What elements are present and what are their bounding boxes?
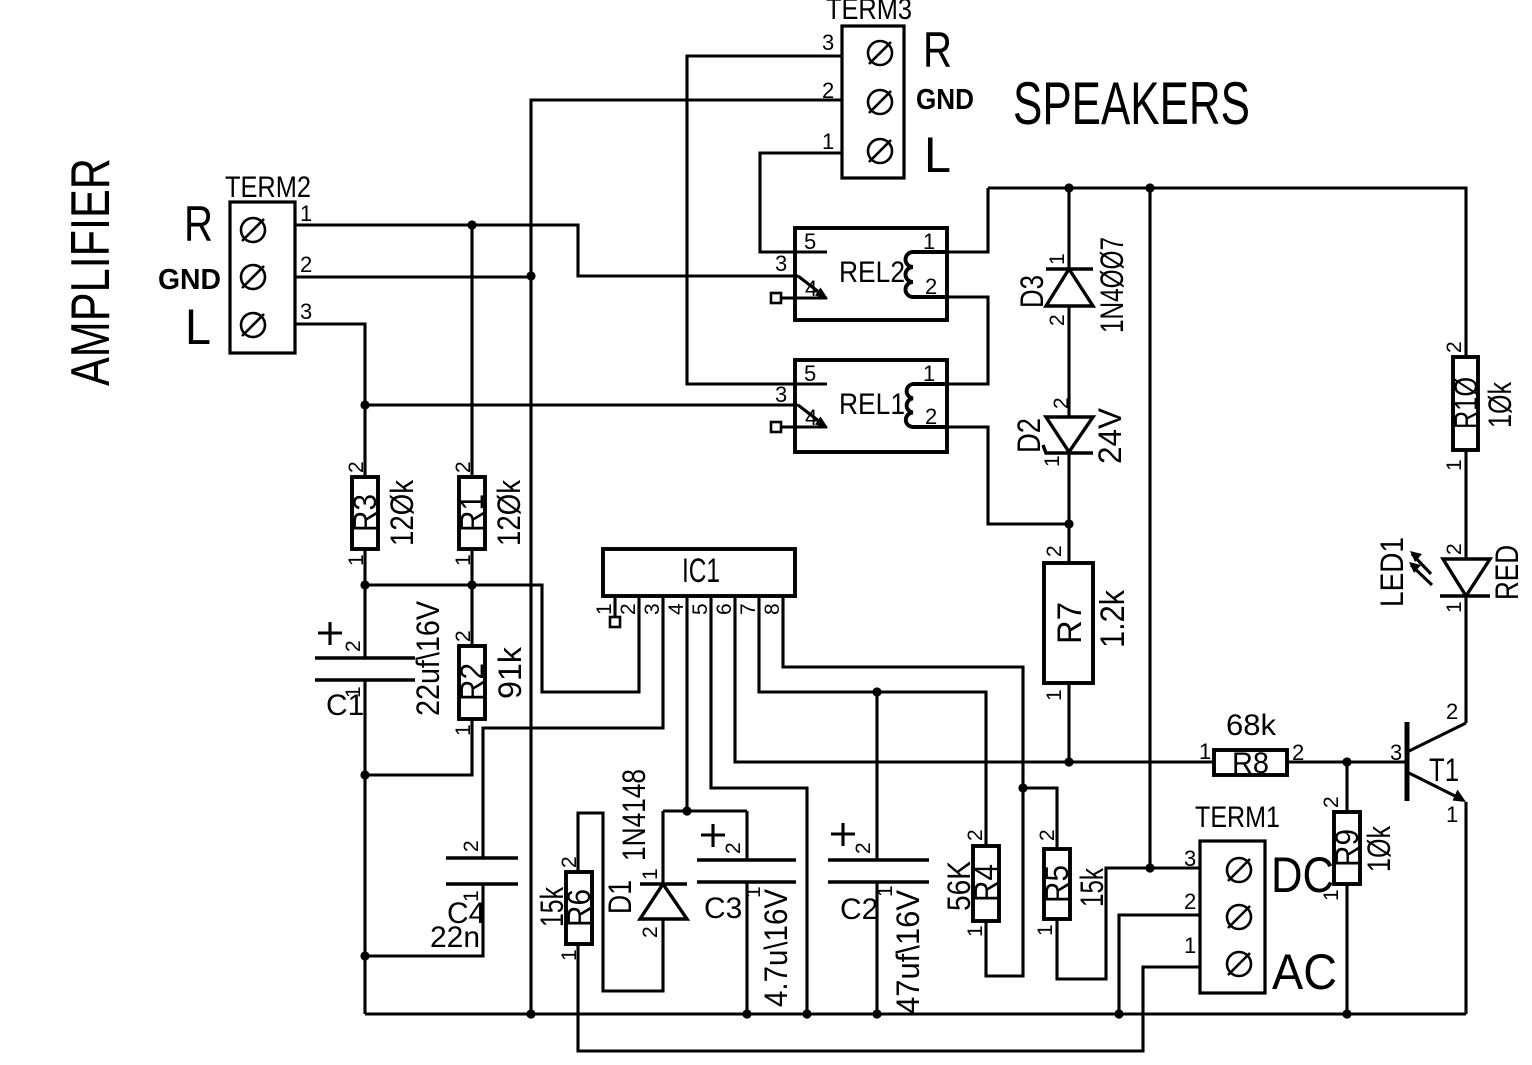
- svg-text:4: 4: [805, 405, 817, 430]
- terminal TERM1: [1195, 801, 1280, 993]
- svg-text:2: 2: [1036, 829, 1059, 841]
- svg-text:1: 1: [1443, 601, 1466, 613]
- svg-text:R9: R9: [1329, 829, 1365, 867]
- resistor R8 68k: [1199, 709, 1304, 780]
- node ground rail / GND column: [526, 1009, 535, 1018]
- wire mid rail to R2 pin2: [470, 585, 473, 646]
- wire D1 pin2 to R6 pin2: [578, 813, 663, 991]
- wire C3 pin1 to ground rail: [745, 882, 748, 1014]
- REL1 switch blade: [798, 405, 824, 425]
- wire top supply rail to R10 pin2: [988, 188, 1466, 357]
- svg-text:D2: D2: [1011, 418, 1047, 453]
- terminal TERM3: [826, 0, 912, 178]
- node R1 pin1 junction: [467, 580, 476, 589]
- node top rail / D3: [1064, 183, 1073, 192]
- wire top rail to D3 pin1: [1067, 188, 1070, 269]
- svg-text:3: 3: [775, 382, 787, 407]
- wire node L to REL1 pin3: [365, 403, 798, 406]
- svg-text:1: 1: [923, 229, 935, 254]
- node D2 R7 junction: [1064, 519, 1073, 528]
- resistor R9 10k: [1320, 796, 1397, 901]
- svg-text:1: 1: [460, 890, 483, 902]
- svg-text:1: 1: [452, 724, 475, 736]
- node R5 pin2 junction: [1018, 783, 1027, 792]
- svg-text:6: 6: [713, 603, 736, 615]
- REL2 switch blade: [798, 276, 824, 296]
- node ground rail / C3: [742, 1009, 751, 1018]
- svg-text:R: R: [923, 22, 952, 78]
- svg-text:3: 3: [775, 251, 787, 276]
- transistor T1: [1390, 699, 1466, 827]
- svg-text:8: 8: [761, 603, 784, 615]
- svg-text:2: 2: [925, 274, 937, 299]
- resistor R4 56K: [941, 829, 1004, 937]
- wire base node to R9 pin2: [1345, 762, 1348, 812]
- svg-text:R7: R7: [1051, 602, 1089, 644]
- wire TERM3 pin3 to REL1 pin5 (speaker R line): [687, 56, 842, 384]
- svg-text:2: 2: [964, 829, 987, 841]
- svg-text:1Øk: 1Øk: [1361, 825, 1397, 872]
- svg-text:1: 1: [639, 868, 662, 880]
- svg-text:4: 4: [665, 603, 688, 615]
- REL1 pin4 contact square: [771, 422, 781, 432]
- node L junction: [360, 400, 369, 409]
- svg-text:3: 3: [1184, 846, 1196, 871]
- op-amp IC1: [603, 549, 795, 596]
- svg-text:TERM1: TERM1: [1195, 801, 1280, 834]
- svg-text:2: 2: [1046, 314, 1069, 326]
- svg-text:R1Ø: R1Ø: [1448, 377, 1484, 429]
- svg-text:1: 1: [874, 885, 897, 897]
- svg-text:1: 1: [300, 201, 312, 226]
- terminal TERM2: [225, 171, 311, 353]
- svg-text:2: 2: [1446, 699, 1458, 724]
- wire LED1 pin1 to T1 collector: [1464, 596, 1467, 723]
- svg-text:1: 1: [1446, 802, 1458, 827]
- node R2 pin1 junction: [360, 770, 369, 779]
- svg-text:2: 2: [300, 252, 312, 277]
- svg-text:1.2k: 1.2k: [1094, 589, 1132, 648]
- svg-text:4: 4: [805, 276, 817, 301]
- screw TERM3-2: [868, 90, 892, 114]
- svg-text:RED: RED: [1489, 545, 1525, 600]
- svg-text:15k: 15k: [534, 886, 570, 927]
- svg-text:2: 2: [852, 842, 875, 854]
- node C2 pin2 junction: [872, 687, 881, 696]
- svg-text:GND: GND: [158, 264, 221, 296]
- wire R5 pin1 to TERM1 pin3: [1057, 868, 1200, 979]
- resistor R1 120k: [452, 461, 527, 566]
- wire REL2 pin1 to top rail: [947, 188, 988, 252]
- svg-text:D1: D1: [602, 880, 638, 914]
- svg-text:91k: 91k: [492, 646, 528, 699]
- svg-text:2: 2: [925, 404, 937, 429]
- svg-text:2: 2: [639, 926, 662, 938]
- wire IC1 pin4 down to node D1/C3: [685, 596, 688, 811]
- wire TERM1 pin2 to ground rail: [1119, 915, 1200, 1014]
- REL2 pin4 contact square: [771, 293, 781, 303]
- svg-text:3: 3: [641, 603, 664, 615]
- svg-text:1: 1: [1320, 889, 1343, 901]
- svg-text:2: 2: [617, 603, 640, 615]
- svg-text:R5: R5: [1039, 865, 1075, 903]
- wire TERM2 pin2 to ground node: [295, 275, 531, 278]
- svg-text:R3: R3: [347, 494, 383, 532]
- wire D1 pin1 up to node: [661, 811, 664, 884]
- node R3 pin1 junction: [360, 580, 369, 589]
- svg-text:1: 1: [1043, 689, 1066, 701]
- svg-text:R2: R2: [454, 663, 490, 701]
- svg-text:24V: 24V: [1092, 407, 1128, 464]
- wire IC1 pin5 to ground rail: [711, 596, 807, 1014]
- wire C3 pin2 stub: [745, 811, 748, 860]
- svg-text:2: 2: [1043, 545, 1066, 557]
- REL1 pin4 line: [781, 425, 827, 428]
- svg-text:1: 1: [345, 554, 368, 566]
- node R amp junction: [467, 220, 476, 229]
- wire C1 pin1 down to bottom ground rail: [363, 680, 366, 1014]
- svg-text:2: 2: [452, 461, 475, 473]
- svg-text:1: 1: [1041, 455, 1064, 467]
- node ground rail / C2: [872, 1009, 881, 1018]
- svg-text:1N4148: 1N4148: [616, 769, 652, 861]
- svg-text:5: 5: [689, 603, 712, 615]
- wire R6 pin1 to TERM1 pin1: [578, 944, 1200, 1051]
- screw TERM2-3: [241, 313, 265, 337]
- node top rail / DC column: [1145, 183, 1154, 192]
- wire C4 pin1 to ground column: [365, 884, 483, 956]
- wire R5 pin2 to pin8 net: [1023, 788, 1057, 849]
- svg-text:12Øk: 12Øk: [491, 479, 527, 546]
- svg-text:2: 2: [1320, 796, 1343, 808]
- REL1 coil: [906, 384, 947, 427]
- diode D3 1N4007: [1014, 237, 1130, 333]
- svg-text:3: 3: [300, 299, 312, 324]
- svg-text:AMPLIFIER: AMPLIFIER: [59, 158, 121, 386]
- wire IC1 pin7 to R4 pin2: [759, 596, 986, 846]
- screw TERM2-1: [241, 218, 265, 242]
- svg-text:2: 2: [822, 78, 834, 103]
- svg-text:1: 1: [452, 554, 475, 566]
- svg-text:GND: GND: [916, 84, 974, 116]
- svg-text:2: 2: [1443, 341, 1466, 353]
- wire R3 pin1 to C1 pin2: [363, 549, 366, 658]
- svg-text:1: 1: [558, 949, 581, 961]
- wire IC1 pin3 to C4 pin2: [483, 596, 663, 858]
- svg-text:2: 2: [722, 842, 745, 854]
- svg-text:L: L: [924, 127, 951, 183]
- diode D1 1N4148: [602, 769, 687, 938]
- zener diode D2 24V: [1011, 397, 1128, 467]
- wire T1 emitter to ground rail: [1464, 802, 1467, 1014]
- node C4 pin1 junction: [360, 951, 369, 960]
- svg-text:56K: 56K: [941, 861, 977, 911]
- wire mid rail R3/R1 junction to IC1 pin2: [365, 585, 639, 692]
- svg-text:1: 1: [1046, 253, 1069, 265]
- pin 1 of IC1 (not connected): [593, 596, 620, 627]
- capacitor C2 47uf/16V (electrolytic): [828, 823, 929, 1014]
- screw TERM1-3: [1227, 858, 1251, 882]
- wire R7 pin1 to pin6 rail: [1067, 683, 1070, 762]
- svg-text:2: 2: [460, 840, 483, 852]
- REL1 blade arrowhead: [815, 417, 828, 429]
- node ground rail / R9: [1342, 1009, 1351, 1018]
- REL2 blade arrowhead: [815, 288, 828, 300]
- resistor R2 91k: [452, 630, 528, 736]
- svg-text:LED1: LED1: [1374, 537, 1410, 607]
- wire TERM3 pin1 to REL2 pin5 (speaker L line): [760, 153, 842, 252]
- svg-text:R8: R8: [1232, 747, 1269, 780]
- screw TERM1-1: [1227, 952, 1251, 976]
- svg-text:1: 1: [822, 129, 834, 154]
- svg-text:C2: C2: [840, 893, 878, 926]
- svg-text:2: 2: [1050, 397, 1073, 409]
- svg-text:3: 3: [1390, 740, 1402, 765]
- resistor R10 10k: [1443, 341, 1518, 471]
- screw TERM1-2: [1227, 905, 1251, 929]
- svg-text:T1: T1: [1429, 752, 1459, 788]
- svg-text:1: 1: [1034, 924, 1057, 936]
- svg-text:L: L: [185, 299, 211, 355]
- svg-text:SPEAKERS: SPEAKERS: [1013, 70, 1250, 137]
- resistor R6 15k: [534, 856, 597, 961]
- svg-text:12Øk: 12Øk: [384, 479, 420, 546]
- node ground rail / IC pin5: [802, 1009, 811, 1018]
- wire TERM2 pin1 to REL2 pin3 (amplifier R line): [295, 225, 798, 276]
- svg-text:REL1: REL1: [839, 388, 905, 421]
- node R7 pin1 junction: [1064, 757, 1073, 766]
- wire TERM2 pin1 node to R1 pin2: [470, 225, 473, 477]
- REL2 pin4 line: [781, 296, 827, 299]
- screw TERM3-1: [868, 139, 892, 163]
- svg-text:2: 2: [1443, 543, 1466, 555]
- capacitor C4 22n: [430, 840, 518, 954]
- svg-text:AC: AC: [1272, 944, 1337, 1000]
- svg-text:1Øk: 1Øk: [1482, 381, 1518, 428]
- svg-text:C3: C3: [704, 892, 742, 925]
- svg-text:D3: D3: [1014, 275, 1050, 308]
- svg-text:1N4ØØ7: 1N4ØØ7: [1094, 237, 1130, 333]
- svg-text:2: 2: [345, 461, 368, 473]
- svg-text:5: 5: [804, 361, 816, 386]
- node ground rail / TERM1 pin2: [1114, 1009, 1123, 1018]
- wire bottom ground rail: [365, 1012, 1466, 1015]
- screw TERM3-3: [868, 41, 892, 65]
- wire C2 pin2 to pin7 net: [875, 692, 878, 860]
- svg-text:R: R: [184, 196, 213, 252]
- svg-text:1: 1: [742, 886, 765, 898]
- wire R8 pin2 to T1 base: [1287, 760, 1405, 763]
- svg-text:2: 2: [1292, 740, 1304, 765]
- resistor R7 1.2k: [1043, 545, 1132, 701]
- svg-text:7: 7: [737, 603, 760, 615]
- wire node D1 anode to C3 pin2: [663, 809, 747, 812]
- LED LED1 RED: [1374, 537, 1525, 613]
- svg-text:R1: R1: [454, 494, 490, 532]
- wire D3 pin2 to D2 pin2: [1067, 306, 1070, 417]
- wire R2 pin1 to C1 column: [365, 719, 472, 775]
- svg-text:2: 2: [452, 630, 475, 642]
- wire IC1 pin8 to R4 pin1: [783, 596, 1023, 976]
- relay REL2: [795, 228, 947, 320]
- wire R1 pin1 to mid rail: [470, 549, 473, 585]
- node T1 base / R9 junction: [1342, 757, 1351, 766]
- svg-text:5: 5: [804, 229, 816, 254]
- wire node L down to R3 pin2: [363, 405, 366, 477]
- svg-text:1: 1: [1184, 933, 1196, 958]
- svg-text:REL2: REL2: [839, 256, 905, 289]
- svg-text:IC1: IC1: [682, 552, 720, 590]
- wire D2 pin1 to R7 pin2: [1067, 452, 1070, 563]
- wire DC sense column: [1148, 188, 1151, 868]
- svg-text:22n: 22n: [430, 921, 480, 954]
- wire TERM3 pin2 to ground rail (speaker GND line): [531, 100, 842, 1014]
- svg-text:1: 1: [923, 361, 935, 386]
- svg-text:3: 3: [822, 30, 834, 55]
- svg-text:1: 1: [1443, 459, 1466, 471]
- svg-text:2: 2: [342, 640, 365, 652]
- node D1 C3 pin4 junction: [682, 806, 691, 815]
- resistor R3 120k: [345, 461, 420, 566]
- LED1 emission arrow 1: [1412, 554, 1431, 574]
- wire R10 pin1 to LED1 pin2: [1464, 450, 1467, 559]
- capacitor C3 4.7u/16V (electrolytic): [697, 824, 796, 1007]
- wire REL2 pin2 to REL1 pin1: [947, 297, 988, 384]
- REL2 coil: [906, 252, 948, 297]
- svg-text:15k: 15k: [1074, 867, 1110, 907]
- svg-text:1: 1: [593, 603, 616, 615]
- svg-text:47uf\16V: 47uf\16V: [890, 889, 926, 1014]
- svg-text:1: 1: [964, 925, 987, 937]
- node TERM1 pin3 junction: [1145, 863, 1154, 872]
- LED1 emission arrow 2: [1411, 565, 1432, 585]
- wire R9 pin1 to ground rail: [1345, 884, 1348, 1014]
- svg-text:2: 2: [1184, 889, 1196, 914]
- resistor R5 15k: [1034, 829, 1110, 936]
- capacitor C1 22uf/16V (electrolytic): [315, 600, 446, 722]
- wire TERM2 pin3 to node L: [295, 324, 365, 405]
- svg-text:4.7u\16V: 4.7u\16V: [758, 888, 794, 1007]
- wire REL1 pin2 to D2 node: [947, 427, 1069, 524]
- svg-text:2: 2: [558, 856, 581, 868]
- svg-text:TERM2: TERM2: [225, 171, 311, 204]
- relay REL1: [795, 360, 947, 452]
- wire C2 pin1 to ground rail: [875, 882, 878, 1014]
- svg-text:68k: 68k: [1226, 709, 1277, 742]
- svg-text:TERM3: TERM3: [826, 0, 912, 26]
- svg-text:1: 1: [342, 686, 365, 698]
- svg-text:22uf\16V: 22uf\16V: [410, 600, 446, 716]
- node GND amp junction: [526, 271, 535, 280]
- svg-text:1: 1: [1199, 739, 1211, 764]
- screw TERM2-2: [241, 265, 265, 289]
- wire IC1 pin6 rail to R8 pin1: [735, 596, 1214, 762]
